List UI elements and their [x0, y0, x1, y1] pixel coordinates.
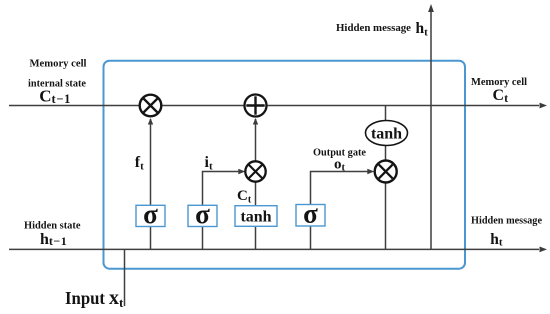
adder plus: [245, 95, 267, 117]
arrowhead into X2: [238, 169, 245, 174]
wire sigma2 to h-line: [202, 227, 204, 250]
tanh ellipse: [366, 121, 408, 146]
svg-text:tanh: tanh: [240, 209, 271, 226]
wire sigma1 to h-line: [150, 227, 152, 250]
svg-text:σ: σ: [143, 199, 158, 229]
arrowhead h-line right: [540, 247, 548, 253]
wire X2 down to tanh box: [255, 182, 257, 206]
arrowhead into X1: [148, 118, 153, 125]
svg-text:tanh: tanh: [371, 126, 402, 143]
arrowhead into X3: [367, 169, 374, 174]
sigma box 3 (output gate): [296, 199, 325, 229]
multiplier X1 (forget): [140, 95, 162, 117]
sigma box 1 (forget gate): [136, 199, 165, 229]
wire tanh box to h-line: [255, 226, 257, 249]
wire X2 up to plus: [255, 119, 257, 161]
wire forget gate up to X1: [150, 119, 152, 206]
svg-text:Hidden message: Hidden message: [336, 22, 411, 34]
svg-text:Input: Input: [65, 288, 105, 308]
svg-text:Memory cell: Memory cell: [30, 58, 87, 70]
wire sigma3 to h-line: [310, 226, 312, 249]
tanh box (candidate): [235, 206, 277, 227]
arrowhead C-line right: [540, 103, 548, 109]
sigma box 2 (input gate): [188, 199, 217, 229]
svg-text:internal state: internal state: [28, 78, 86, 90]
svg-text:σ: σ: [303, 199, 318, 229]
LSTM cell boundary box: [104, 61, 466, 269]
wire h_t vertical (output up): [430, 12, 432, 249]
svg-text:Hidden message: Hidden message: [471, 215, 542, 227]
wire output gate elbow o_t: [311, 172, 373, 205]
wire X3 down to h-line: [385, 183, 387, 250]
arrowhead into plus: [253, 118, 258, 125]
multiplier X2 (input): [245, 161, 265, 181]
svg-text:σ: σ: [195, 199, 210, 229]
multiplier X3 (output): [375, 161, 397, 183]
wire tanh ellipse to X3: [385, 146, 387, 161]
wire input gate elbow i_t: [203, 172, 244, 206]
wire input x_t vertical: [124, 249, 126, 306]
svg-text:ht−1: ht−1: [40, 231, 67, 248]
arrowhead h_t up: [428, 4, 434, 12]
wire h-line (hidden state, horizontal): [9, 248, 539, 250]
svg-text:Hidden state: Hidden state: [24, 220, 81, 232]
wire C-line down to tanh ellipse: [385, 106, 387, 122]
wire C-line (memory cell state, horizontal): [9, 105, 539, 107]
